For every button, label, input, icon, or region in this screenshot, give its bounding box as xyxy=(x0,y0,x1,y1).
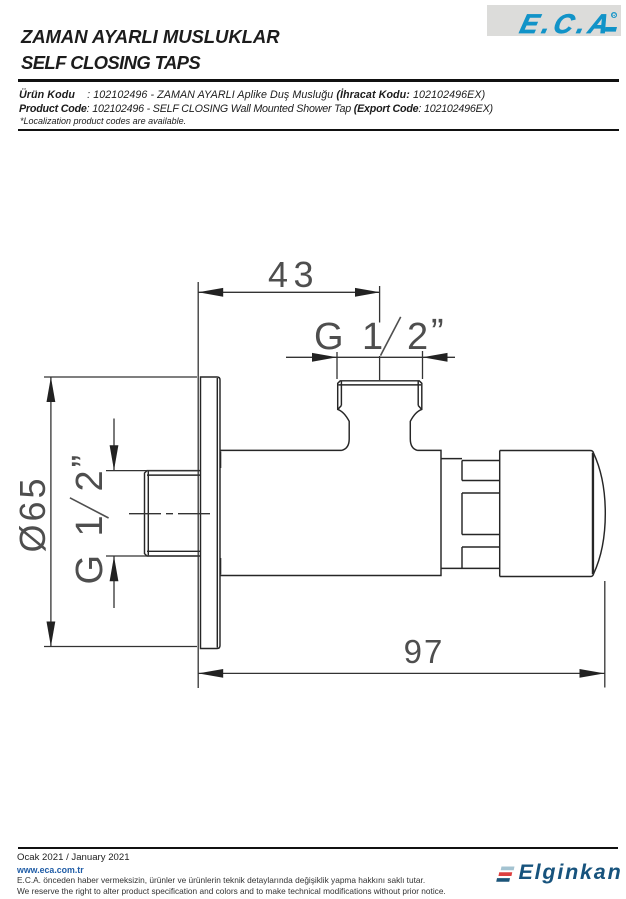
wall plane extension line xyxy=(197,282,199,688)
footer disclaimer TR xyxy=(17,875,425,885)
body-flange fillet marks xyxy=(219,452,221,469)
dim 97: line xyxy=(198,672,604,674)
svg-text:1: 1 xyxy=(362,316,383,358)
top outlet neck and thread G1/2 xyxy=(338,381,422,451)
svg-text:R: R xyxy=(612,13,616,19)
product info line 2 xyxy=(19,103,493,115)
dim Ø65: line xyxy=(50,377,52,647)
svg-text:Ø65: Ø65 xyxy=(12,475,53,552)
arrowheads dim Ø65 xyxy=(47,377,56,402)
cartridge adapter xyxy=(441,459,462,569)
dim 97: right extension line xyxy=(604,581,606,688)
dim 43: line xyxy=(198,291,380,293)
body cylinder xyxy=(220,450,441,575)
cartridge castellated ring xyxy=(462,461,500,569)
info block bottom rule xyxy=(18,129,619,131)
label G 1/2" left (rotated) xyxy=(65,455,111,585)
footer rule xyxy=(18,847,618,849)
knob face edge xyxy=(592,453,594,574)
footer site xyxy=(17,865,84,875)
wall flange plate xyxy=(201,377,221,649)
inlet nipple G1/2 (back) xyxy=(145,471,201,556)
dim G1/2 top: line xyxy=(286,356,455,358)
knob dome arc xyxy=(593,453,605,574)
header title EN xyxy=(21,52,200,73)
product info line 1 xyxy=(19,89,485,101)
label G 1/2" top xyxy=(314,312,444,358)
arrowheads dim G1/2 left xyxy=(110,445,119,470)
svg-text:”: ” xyxy=(65,455,107,468)
footer disclaimer EN xyxy=(17,886,446,896)
dim G1/2 top: extension lines xyxy=(337,351,423,379)
svg-text:G: G xyxy=(69,555,111,585)
svg-text:Elginkan: Elginkan xyxy=(519,860,623,884)
arrowheads dim 97 xyxy=(198,669,223,678)
E.C.A. logo box xyxy=(487,5,621,36)
svg-text:4: 4 xyxy=(268,254,288,295)
svg-text:”: ” xyxy=(431,312,444,354)
dim G1/2 left: line segments xyxy=(113,419,115,609)
svg-text:97: 97 xyxy=(404,633,445,670)
svg-text:2: 2 xyxy=(69,470,111,491)
svg-text:G: G xyxy=(314,316,344,358)
svg-text:E.C.A: E.C.A xyxy=(517,8,617,36)
dim text Ø65 (rotated) xyxy=(12,475,53,552)
svg-text:2: 2 xyxy=(407,316,428,358)
header thick rule xyxy=(18,79,619,83)
Elginkan logo xyxy=(495,857,626,889)
dim Ø65: extension lines xyxy=(44,377,197,647)
arrowheads dim G1/2 top xyxy=(312,353,337,362)
knob xyxy=(500,451,594,577)
svg-text:1: 1 xyxy=(69,515,111,536)
product info line 3 xyxy=(20,116,186,126)
footer date xyxy=(17,852,130,863)
header title TR xyxy=(21,26,280,47)
dim 43: outlet centerline extension xyxy=(379,286,381,380)
technical drawing xyxy=(0,230,626,705)
dim G1/2 left: extension lines xyxy=(106,471,198,556)
centerline of inlet xyxy=(127,513,212,515)
arrowheads dim 43 xyxy=(198,288,223,297)
svg-text:3: 3 xyxy=(294,254,314,295)
